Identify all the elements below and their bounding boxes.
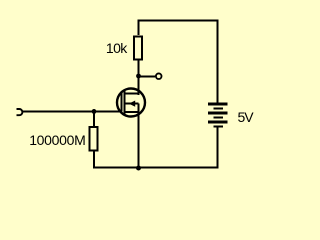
- label 100000M: [29, 132, 85, 148]
- label 10k: [106, 40, 128, 56]
- wire drain: [138, 76, 140, 95]
- wire battery bottom: [217, 128, 219, 169]
- mosfet body circle: [117, 89, 145, 117]
- resistor 10k: [134, 36, 142, 59]
- wire top rail: [139, 21, 218, 103]
- wire resistor top: [93, 112, 95, 128]
- transistor Q1 MOSFET: [117, 89, 145, 117]
- wire bottom rail: [139, 167, 219, 169]
- input terminal: [17, 109, 23, 115]
- node drain junction: [136, 74, 141, 79]
- node source-rail junction: [136, 166, 141, 171]
- battery plate long 1: [208, 103, 228, 106]
- mosfet body lead with arrow: [126, 103, 139, 105]
- battery plate long 2: [208, 112, 228, 115]
- wire source: [138, 104, 140, 168]
- battery plate short 2: [213, 117, 223, 119]
- battery B1: [208, 103, 228, 128]
- resistor 100000M: [90, 127, 98, 150]
- label 5V: [238, 109, 255, 125]
- mosfet channel bar: [124, 90, 126, 115]
- mosfet source lead: [125, 111, 139, 113]
- wire resistor bottom to rail: [94, 151, 139, 168]
- wire resistor 10k bottom: [138, 60, 140, 76]
- battery plate short 1: [213, 108, 223, 110]
- wire gate input: [22, 111, 122, 113]
- svg-text:100000M: 100000M: [29, 132, 85, 148]
- node gate junction: [92, 109, 97, 114]
- wire to output terminal: [139, 75, 156, 77]
- battery plate short 3: [213, 125, 223, 127]
- battery plate long 3: [208, 121, 228, 124]
- svg-text:10k: 10k: [106, 40, 128, 56]
- mosfet drain lead: [125, 93, 139, 95]
- output terminal: [156, 73, 162, 79]
- mosfet gate bar: [120, 92, 122, 112]
- svg-text:5V: 5V: [238, 109, 255, 125]
